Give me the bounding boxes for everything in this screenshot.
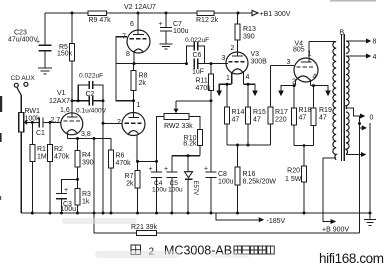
resistor R16 (235, 145, 276, 213)
svg-text:100u: 100u (152, 187, 167, 194)
resistor R11 (196, 64, 214, 173)
svg-text:1: 1 (308, 51, 312, 58)
svg-text:1 5W: 1 5W (285, 176, 302, 183)
svg-text:hifi168.com: hifi168.com (319, 251, 384, 266)
svg-text:0.022uF: 0.022uF (79, 73, 103, 80)
svg-text:470k: 470k (116, 160, 132, 167)
svg-text:8.2k: 8.2k (183, 141, 197, 148)
svg-text:R15: R15 (253, 109, 266, 116)
svg-text:2k: 2k (126, 181, 134, 188)
svg-text:12AX7: 12AX7 (49, 98, 70, 105)
svg-text:+: + (164, 166, 168, 173)
svg-text:47u/400V: 47u/400V (8, 37, 38, 44)
svg-text:R19: R19 (319, 107, 332, 114)
wire V1 cathode (68, 137, 112, 150)
capacitor C1 (36, 118, 61, 138)
scan artifacts left edge (0, 0, 376, 200)
resistor R3 (75, 189, 91, 214)
caption 图 2 MC3008-AB的放大电路 (131, 244, 232, 258)
svg-text:+B1 300V: +B1 300V (260, 11, 291, 18)
svg-text:6: 6 (130, 21, 134, 28)
resistor R5 (57, 13, 75, 101)
node output tap 4 (346, 54, 377, 62)
wire bias net (172, 154, 200, 172)
svg-text:805: 805 (293, 47, 305, 54)
wire feedback to R21 (94, 139, 360, 234)
resistor R17 (268, 66, 288, 145)
svg-text:V2 12AU7: V2 12AU7 (124, 4, 156, 11)
svg-text:+: + (64, 187, 68, 194)
svg-text:1k: 1k (82, 199, 90, 206)
svg-text:RW2 33k: RW2 33k (164, 123, 193, 130)
resistor R15 (246, 84, 266, 145)
svg-text:8.25k/20W: 8.25k/20W (243, 179, 277, 186)
tube V2 (12AU7 upper half) (122, 4, 156, 58)
wire V2 cathode pin8 (116, 52, 228, 65)
svg-text:4: 4 (246, 74, 250, 81)
svg-text:R7: R7 (125, 173, 134, 180)
capacitor C2 (0.022uF + 0.1u/400V parallel) (71, 73, 107, 115)
resistor R1 (30, 122, 47, 213)
svg-text:CD AUX: CD AUX (11, 75, 36, 82)
resistor R9 (88, 11, 111, 24)
wire top B+ rail (45, 12, 252, 14)
svg-text:R21 39k: R21 39k (131, 224, 158, 231)
wire cathode bracket V3 (227, 144, 271, 147)
ground (C23) (38, 68, 52, 74)
resistor R2 (48, 122, 70, 213)
resistor R10 (183, 116, 202, 155)
svg-text:2,7: 2,7 (51, 117, 61, 124)
node secondary bottom arrow (346, 152, 366, 157)
svg-text:47: 47 (232, 117, 240, 124)
ground (output) (364, 212, 376, 226)
node +B1 300V terminal (252, 10, 291, 18)
node top rail junction dots (71, 12, 240, 15)
resistor R4 (75, 139, 94, 189)
wire bottom common rail (21, 212, 370, 215)
tube V1 (12AX7) (49, 90, 91, 139)
node grid line dots (31, 121, 52, 124)
potentiometer RW2 (157, 101, 212, 213)
wire V3 filament right + arrow (243, 83, 257, 97)
svg-text:E57V: E57V (192, 181, 198, 196)
svg-text:+: + (159, 21, 163, 28)
resistor R13 (235, 13, 256, 56)
svg-text:3,8: 3,8 (81, 131, 91, 138)
resistor R20 (285, 166, 307, 213)
svg-text:470k: 470k (196, 85, 212, 92)
svg-text:0.022uF: 0.022uF (185, 37, 209, 44)
svg-text:220: 220 (275, 117, 287, 124)
svg-text:R14: R14 (232, 109, 245, 116)
wire feedback tap column (358, 116, 367, 233)
node output tap 8 (346, 39, 377, 46)
capacitor C8 (204, 166, 234, 214)
svg-text:3: 3 (222, 55, 226, 62)
capacitor C6 (0.022uF + 1uF parallel) (185, 37, 209, 76)
capacitor C5 (164, 166, 183, 213)
svg-text:0.1u/400V: 0.1u/400V (76, 108, 107, 115)
svg-text:C8: C8 (218, 171, 227, 178)
svg-text:R9 47k: R9 47k (89, 17, 112, 24)
svg-text:300B: 300B (251, 59, 268, 66)
svg-text:V1: V1 (57, 90, 66, 97)
ground (C7) (160, 44, 173, 49)
svg-text:C7: C7 (173, 21, 182, 28)
svg-text:4: 4 (313, 74, 317, 81)
tube V4 (805) (287, 41, 319, 86)
resistor R21 (131, 224, 158, 236)
wire V2 grid pin7 (116, 37, 134, 101)
wire V4 filament left + arrow (278, 84, 295, 96)
svg-text:R18: R18 (299, 107, 312, 114)
svg-text:R20: R20 (287, 168, 300, 175)
svg-text:47: 47 (253, 117, 261, 124)
capacitor C7 (159, 13, 189, 44)
tube V3 (300B) (222, 40, 268, 84)
resistor R18 (292, 86, 312, 146)
svg-text:R2: R2 (54, 146, 63, 153)
svg-text:8: 8 (373, 39, 377, 46)
capacitor C23 (8, 13, 52, 68)
svg-text:1M: 1M (37, 154, 47, 161)
svg-text:-185V: -185V (267, 218, 286, 225)
svg-text:C1: C1 (36, 130, 45, 137)
resistor R8 (131, 64, 148, 103)
resistor R7 (125, 160, 158, 213)
svg-text:V3: V3 (251, 51, 260, 58)
svg-text:R16: R16 (243, 171, 256, 178)
resistor R6 (109, 150, 132, 213)
svg-text:0: 0 (370, 115, 374, 122)
watermark hifi168.com (319, 251, 384, 266)
svg-text:100u: 100u (218, 179, 234, 186)
svg-text:2: 2 (231, 45, 235, 52)
svg-text:RW1: RW1 (25, 108, 41, 115)
caption CJK tail (234, 246, 274, 254)
svg-text:R13: R13 (243, 26, 256, 33)
svg-text:47: 47 (319, 115, 327, 122)
svg-text:1: 1 (137, 102, 141, 109)
svg-text:470k: 470k (54, 154, 70, 161)
svg-text:1,6: 1,6 (60, 107, 70, 114)
svg-text:150k: 150k (57, 51, 73, 58)
svg-text:C2: C2 (86, 91, 95, 98)
node output tap 0 (346, 108, 374, 122)
resistor R12 (196, 11, 219, 24)
switch CD/AUX input (11, 75, 36, 113)
capacitor C4 (149, 166, 168, 194)
transformer B output (309, 30, 349, 162)
svg-text:1: 1 (226, 75, 230, 82)
svg-text:1uF: 1uF (192, 69, 204, 76)
svg-text:R3: R3 (82, 191, 91, 198)
svg-text:R4: R4 (82, 152, 91, 159)
svg-text:390: 390 (243, 34, 255, 41)
svg-text:100u: 100u (61, 206, 77, 213)
wire ground column right (369, 123, 371, 213)
wire V2a grid column (102, 101, 123, 213)
svg-text:390: 390 (82, 160, 94, 167)
svg-text:100u: 100u (168, 187, 183, 194)
resistor R14 (225, 84, 245, 145)
resistor R19 (311, 86, 332, 146)
scan smudges (62, 218, 250, 258)
zener diode E57V (185, 156, 199, 213)
svg-text:C6: C6 (193, 52, 202, 59)
svg-text:+: + (149, 166, 153, 173)
svg-text:8: 8 (126, 51, 130, 58)
tube V2a (12AU7 lower half) (117, 101, 145, 162)
svg-text:R8: R8 (139, 73, 148, 80)
wire V4 filament right + arrow (311, 84, 331, 96)
svg-text:100u: 100u (173, 28, 189, 35)
svg-text:R1: R1 (37, 146, 46, 153)
svg-text:47: 47 (299, 115, 307, 122)
capacitor C3 (56, 179, 78, 213)
wire V3 filament left + arrow (216, 83, 231, 97)
wire cathode bracket V4 (294, 144, 314, 166)
svg-text:4: 4 (373, 54, 377, 61)
svg-text:R6: R6 (116, 153, 125, 160)
wire primary bottom to +B 900V (322, 158, 349, 234)
potentiometer RW1 (19, 108, 40, 213)
node -185V branch (216, 213, 286, 225)
svg-text:3: 3 (287, 59, 291, 66)
wire V4 grid (271, 65, 295, 67)
svg-text:+: + (204, 166, 208, 173)
svg-text:2k: 2k (139, 80, 147, 87)
svg-text:2: 2 (117, 119, 121, 126)
svg-text:R11: R11 (196, 78, 208, 85)
svg-text:R17: R17 (275, 109, 288, 116)
svg-text:C23: C23 (14, 30, 27, 37)
svg-text:R12 2k: R12 2k (196, 17, 219, 24)
